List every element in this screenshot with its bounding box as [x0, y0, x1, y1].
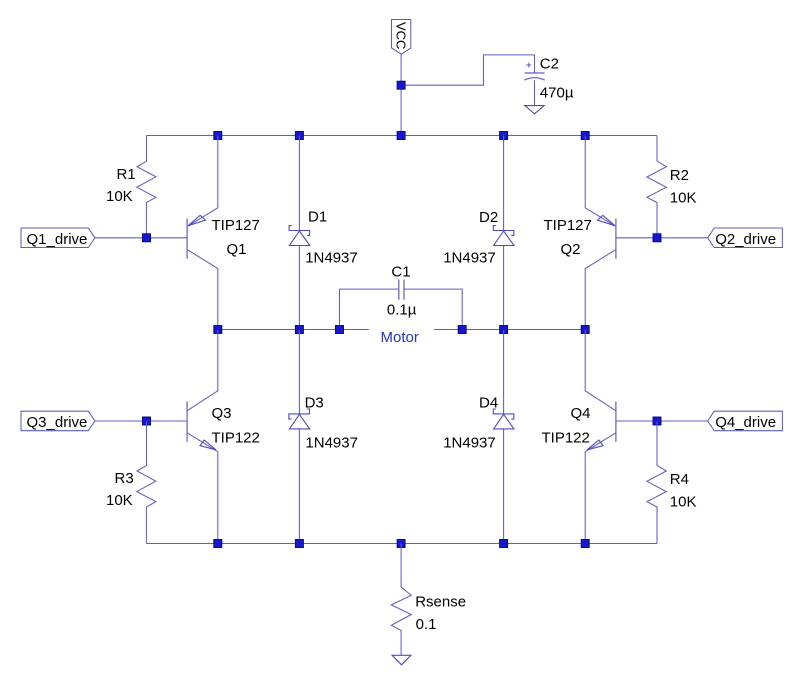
wire Q3_drive to Q3 base — [95, 420, 187, 422]
ground (Rsense) — [392, 655, 411, 665]
port Q2_drive — [708, 228, 783, 248]
capacitor C1 — [340, 263, 463, 330]
svg-text:0.1: 0.1 — [416, 616, 437, 633]
svg-text:470µ: 470µ — [540, 85, 574, 102]
wire Q2_drive to Q2 base — [616, 237, 708, 239]
svg-text:Q1_drive: Q1_drive — [27, 231, 88, 248]
node R3/Q3_drive junction — [143, 417, 151, 425]
resistor R3 — [106, 422, 156, 544]
diode D4 — [443, 330, 514, 544]
transistor Q1 — [187, 136, 260, 331]
port Q3_drive — [21, 411, 95, 431]
diode D3 — [289, 330, 358, 544]
svg-text:R3: R3 — [115, 470, 134, 487]
transistor Q3 — [187, 330, 260, 544]
resistor R4 — [647, 422, 697, 544]
svg-text:Q4: Q4 — [571, 405, 591, 422]
wire middle rail right — [434, 329, 585, 331]
node VCC junction — [397, 81, 405, 89]
wire VCC flag to top rail — [400, 54, 402, 135]
svg-text:TIP127: TIP127 — [212, 217, 260, 234]
svg-text:D4: D4 — [479, 394, 498, 411]
wire top rail — [147, 135, 658, 137]
svg-text:TIP127: TIP127 — [544, 217, 592, 234]
transistor Q4 — [542, 330, 616, 544]
svg-text:1N4937: 1N4937 — [443, 250, 496, 267]
ground (C2) — [525, 106, 544, 114]
svg-text:1N4937: 1N4937 — [443, 434, 496, 451]
resistor R2 — [647, 136, 697, 239]
svg-text:Rsense: Rsense — [415, 594, 466, 611]
svg-text:D2: D2 — [479, 209, 498, 226]
svg-text:D1: D1 — [308, 208, 327, 225]
diode D2 — [443, 136, 514, 331]
svg-text:D3: D3 — [305, 394, 324, 411]
node R2/Q2_drive junction — [653, 234, 661, 242]
wire bottom rail — [147, 543, 658, 545]
svg-text:C2: C2 — [540, 56, 559, 73]
node middle rail junctions — [214, 326, 222, 334]
node bottom rail junctions — [214, 540, 222, 548]
capacitor C2 — [524, 56, 573, 106]
svg-text:Q3: Q3 — [212, 405, 232, 422]
svg-text:10K: 10K — [106, 492, 133, 509]
resistor Rsense — [391, 544, 466, 656]
svg-text:Q4_drive: Q4_drive — [715, 414, 776, 431]
svg-text:Motor: Motor — [381, 329, 419, 346]
svg-text:10K: 10K — [670, 494, 697, 511]
resistor R1 — [106, 136, 156, 239]
svg-text:10K: 10K — [670, 190, 697, 207]
svg-text:TIP122: TIP122 — [212, 429, 260, 446]
transistor Q2 — [544, 136, 616, 331]
svg-text:TIP122: TIP122 — [542, 429, 590, 446]
svg-text:Q3_drive: Q3_drive — [27, 414, 88, 431]
node R1/Q1_drive junction — [143, 234, 151, 242]
port Q4_drive — [708, 411, 783, 431]
node R4/Q4_drive junction — [653, 417, 661, 425]
svg-text:R1: R1 — [117, 166, 136, 183]
svg-text:Q1: Q1 — [227, 241, 247, 258]
svg-text:Q2_drive: Q2_drive — [715, 231, 776, 248]
svg-text:Q2: Q2 — [561, 241, 581, 258]
power flag VCC — [392, 20, 411, 55]
diode D1 — [289, 136, 358, 331]
svg-text:10K: 10K — [106, 188, 133, 205]
wire middle rail left — [218, 329, 369, 331]
svg-text:VCC: VCC — [394, 22, 409, 49]
wire VCC junction to C2 — [401, 55, 534, 85]
port Q1_drive — [21, 228, 95, 248]
wire Q4_drive to Q4 base — [616, 420, 708, 422]
svg-text:0.1µ: 0.1µ — [387, 301, 417, 318]
wire Q1_drive to Q1 base — [95, 237, 187, 239]
svg-text:1N4937: 1N4937 — [305, 434, 358, 451]
svg-text:R4: R4 — [670, 471, 689, 488]
svg-text:C1: C1 — [391, 263, 410, 280]
node top rail junctions — [214, 132, 222, 140]
svg-text:R2: R2 — [670, 167, 689, 184]
svg-text:1N4937: 1N4937 — [305, 250, 358, 267]
